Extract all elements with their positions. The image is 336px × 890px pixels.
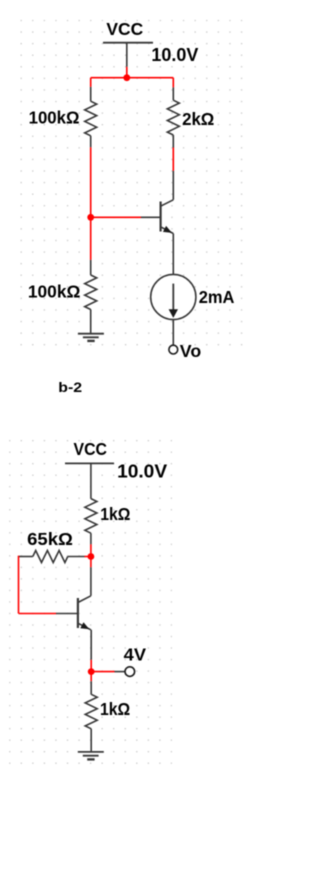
- wire red collector node vertical: [90, 544, 92, 567]
- resistor R1 100k zigzag: [85, 101, 97, 136]
- value label 10.0V: [151, 45, 198, 65]
- wire black base lead circuit 2: [56, 613, 78, 615]
- svg-text:100kΩ: 100kΩ: [29, 108, 80, 128]
- wire red left drop: [90, 78, 92, 87]
- resistor R5 1k zigzag: [85, 694, 97, 729]
- svg-text:4V: 4V: [124, 644, 147, 664]
- wire black collector lead: [172, 171, 174, 200]
- terminal Vo circle: [169, 345, 178, 354]
- ground symbol circuit 2: [78, 752, 104, 760]
- junction dot collector node: [88, 553, 95, 560]
- wire black below source: [172, 320, 174, 346]
- wire red top bus: [91, 77, 174, 79]
- node label Vo: [180, 341, 201, 361]
- wire black R3 top lead: [172, 87, 174, 100]
- svg-text:2mA: 2mA: [199, 287, 235, 307]
- wire black R2 bottom lead: [90, 310, 92, 334]
- svg-text:1kΩ: 1kΩ: [100, 699, 130, 719]
- caption b-2: [58, 379, 82, 395]
- resistor R4 1k zigzag: [85, 499, 97, 534]
- wire red to terminal: [91, 671, 114, 673]
- wire red feedback stub: [85, 556, 91, 558]
- svg-text:2kΩ: 2kΩ: [182, 109, 214, 129]
- wire black R2 top lead: [90, 260, 92, 275]
- value label 1kOhm upper: [100, 504, 130, 524]
- svg-text:65kΩ: 65kΩ: [27, 529, 73, 549]
- wire black terminal lead: [115, 671, 126, 673]
- wire red right drop: [172, 78, 174, 88]
- junction dot node base: [87, 214, 94, 221]
- wire black emitter: [172, 234, 174, 275]
- wire black R5 bottom lead: [90, 729, 92, 752]
- svg-text:100kΩ: 100kΩ: [28, 282, 81, 302]
- wire black R1 top lead: [90, 87, 92, 101]
- junction dot node VCC: [123, 74, 130, 81]
- wire red feedback bottom: [19, 613, 57, 615]
- wire black base lead: [141, 216, 160, 218]
- value label 100kOhm upper: [29, 108, 80, 128]
- power symbol VCC label: [106, 19, 143, 39]
- power symbol VCC label circuit 2: [74, 439, 108, 459]
- wire red base: [91, 216, 141, 218]
- wire black VCC stub circuit 2: [90, 463, 92, 498]
- value label 65kOhm: [27, 529, 73, 549]
- wire black R3 bottom lead: [172, 135, 174, 148]
- transistor Q1 npn: [161, 200, 174, 234]
- grid dots circuit 2: [9, 440, 172, 765]
- current source I1 circle: [151, 274, 196, 319]
- resistor R3 2k zigzag: [167, 100, 179, 135]
- wire black R6 left lead: [19, 556, 33, 558]
- wire red collector: [172, 148, 174, 171]
- wire red feedback vertical: [18, 556, 20, 614]
- svg-text:VCC: VCC: [106, 19, 143, 39]
- grid dots circuit 1: [20, 20, 243, 347]
- wire red left rail: [90, 147, 92, 260]
- svg-text:VCC: VCC: [74, 439, 108, 459]
- wire red emitter node vertical: [90, 660, 92, 682]
- value label 1kOhm lower: [100, 699, 130, 719]
- node label 4V: [124, 644, 147, 664]
- ground symbol circuit 1: [78, 334, 104, 341]
- svg-text:Vo: Vo: [180, 341, 201, 361]
- svg-text:10.0V: 10.0V: [117, 462, 167, 482]
- wire black R6 right lead: [68, 556, 85, 558]
- power symbol VCC bar circuit 2: [65, 462, 114, 464]
- svg-text:1kΩ: 1kΩ: [100, 504, 130, 524]
- wire black R1 bottom lead: [90, 136, 92, 148]
- VCC stub wire black: [126, 43, 128, 67]
- current source I1 arrow: [169, 284, 178, 318]
- resistor R6 65k zigzag: [33, 551, 68, 563]
- wire black R5 top lead: [90, 681, 92, 694]
- value label 10.0V circuit 2: [117, 462, 167, 482]
- junction dot emitter node: [88, 668, 95, 675]
- wire red VCC stub: [126, 67, 128, 79]
- resistor R2 100k zigzag: [85, 275, 97, 310]
- terminal 4V circle: [125, 667, 135, 677]
- wire black collector lead circuit 2: [90, 567, 92, 596]
- value label 2kOhm: [182, 109, 214, 129]
- wire black emitter circuit 2: [90, 630, 92, 660]
- power symbol VCC bar: [103, 42, 153, 44]
- value label 100kOhm lower: [28, 282, 81, 302]
- value label 2mA: [199, 287, 235, 307]
- transistor Q2 npn: [78, 596, 91, 630]
- wire black R4 bottom lead: [90, 533, 92, 544]
- svg-text:b-2: b-2: [58, 379, 82, 395]
- svg-text:10.0V: 10.0V: [151, 45, 198, 65]
